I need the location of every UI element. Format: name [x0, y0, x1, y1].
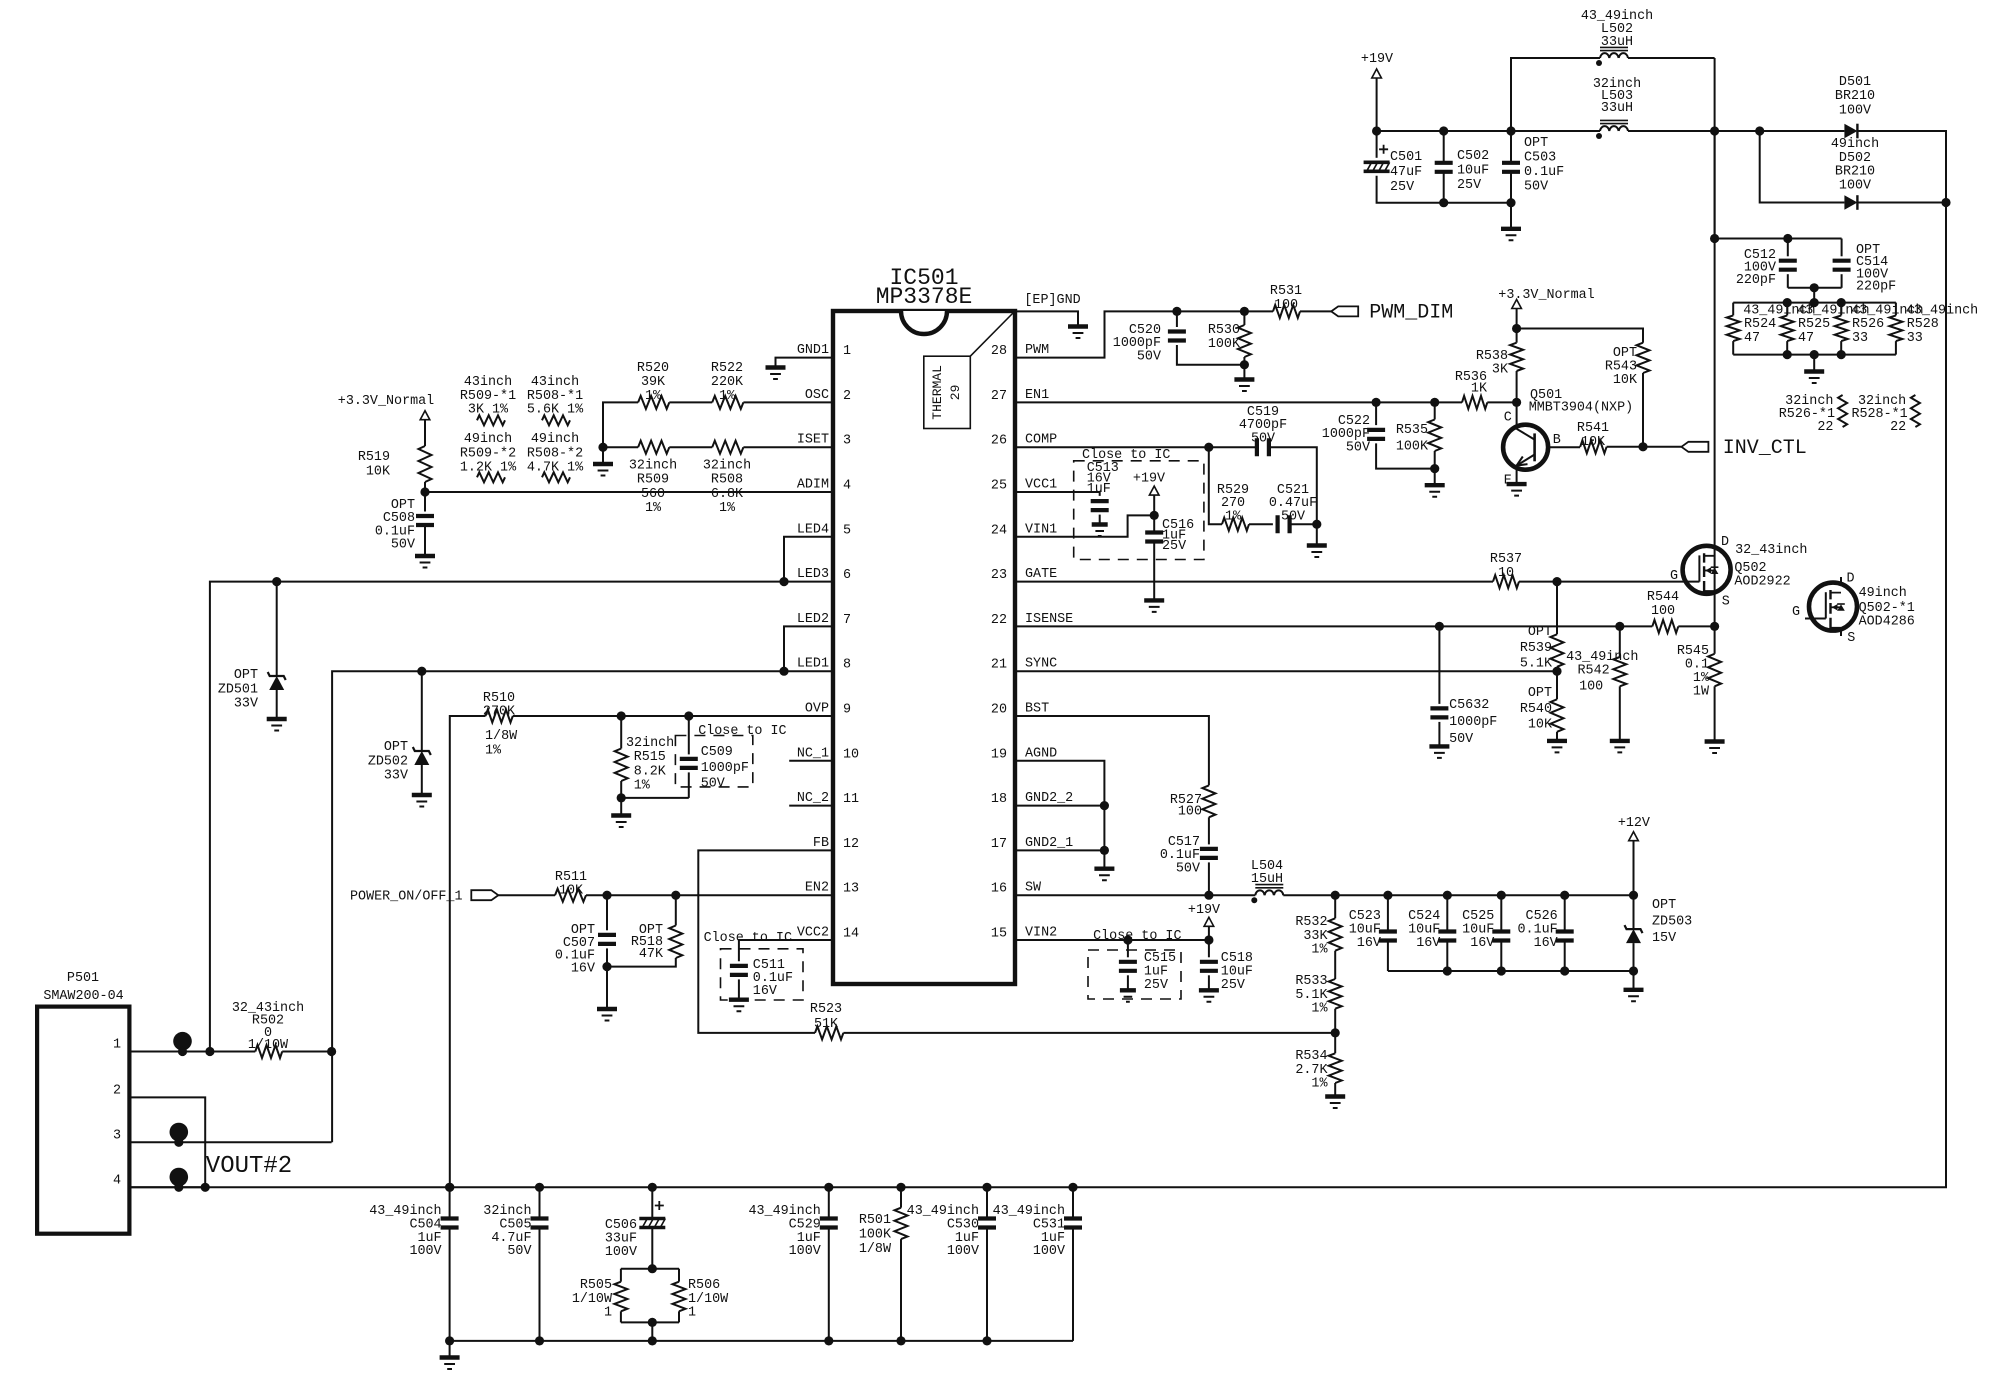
wire network top rail: [1733, 302, 1896, 304]
svg-text:R524: R524: [1744, 317, 1776, 332]
svg-text:VIN1: VIN1: [1025, 522, 1057, 537]
wire R518 bottom: [607, 958, 676, 967]
wire: [1556, 732, 1558, 741]
node ground rail: [982, 1336, 991, 1345]
node ZD503/+12V: [1629, 891, 1638, 900]
wire: [1249, 523, 1273, 525]
svg-text:OPT: OPT: [1652, 898, 1676, 913]
wire R524: [1732, 303, 1734, 316]
node C501 top: [1372, 126, 1381, 135]
wire ZD503: [1633, 895, 1635, 929]
svg-text:10K: 10K: [559, 884, 584, 899]
svg-text:1/10W: 1/10W: [248, 1038, 289, 1053]
node C523 top: [1383, 891, 1392, 900]
svg-text:16V: 16V: [1534, 936, 1558, 951]
wire R544 to Q502 source: [1678, 625, 1714, 627]
wire to INV_CTL: [1607, 446, 1682, 448]
svg-text:26: 26: [991, 434, 1007, 449]
node R515 tap: [617, 711, 626, 720]
node R505/R506 top: [648, 1264, 657, 1273]
resistor R526 33: [1835, 315, 1848, 341]
svg-text:POWER_ON/OFF_1: POWER_ON/OFF_1: [350, 890, 463, 905]
svg-text:24: 24: [991, 523, 1007, 538]
wire: [1334, 1083, 1336, 1097]
wire +19V stem: [1376, 78, 1378, 131]
resistor R535 100K: [1428, 420, 1441, 452]
node D501/D502 cathodes: [1941, 198, 1950, 207]
svg-text:EN1: EN1: [1025, 388, 1049, 403]
wire R526: [1840, 303, 1842, 316]
capacitor C506 33uF electrolytic: [639, 1219, 665, 1228]
svg-text:22: 22: [991, 613, 1007, 628]
wire OVP to bottom rail: [450, 716, 486, 1187]
svg-text:BR210: BR210: [1835, 89, 1875, 104]
resistor R508-*1 zigzag: [542, 415, 570, 425]
node C525 bottom: [1497, 966, 1506, 975]
svg-text:VCC2: VCC2: [797, 926, 829, 941]
svg-text:2: 2: [843, 389, 851, 404]
svg-text:ISET: ISET: [797, 433, 829, 448]
resistor R526-*1 22 option: [1838, 395, 1847, 427]
wire: [669, 401, 712, 403]
svg-text:14: 14: [843, 927, 859, 942]
node VIN1/+19V/C516: [1150, 511, 1159, 520]
wire R535: [1434, 402, 1436, 419]
node LED2-LED1 junction: [779, 667, 788, 676]
wire: [1208, 926, 1210, 940]
ground C513: [1092, 522, 1108, 526]
resistor R509-*1 zigzag: [477, 415, 505, 425]
node R535 tap: [1430, 398, 1439, 407]
svg-text:1/10W: 1/10W: [572, 1292, 613, 1307]
node C503 bottom: [1506, 198, 1515, 207]
svg-text:C501: C501: [1390, 150, 1422, 165]
flag PWM_DIM: [1331, 306, 1358, 316]
node: [1837, 298, 1846, 307]
resistor R540 10K OPT: [1551, 699, 1564, 732]
wire Q502-*1 drain stub: [1840, 577, 1842, 583]
wire to C508: [424, 492, 426, 512]
svg-text:1uF: 1uF: [1087, 482, 1111, 497]
capacitor C502 10uF: [1435, 163, 1453, 172]
node R535 bottom: [1430, 464, 1439, 473]
wire: [421, 765, 423, 795]
svg-text:LED1: LED1: [797, 657, 829, 672]
svg-text:10K: 10K: [1581, 435, 1606, 450]
svg-text:1%: 1%: [645, 389, 662, 404]
flag POWER_ON/OFF_1: [471, 890, 498, 900]
svg-text:P501: P501: [67, 971, 99, 986]
svg-text:GATE: GATE: [1025, 567, 1057, 582]
wire: [738, 979, 740, 999]
svg-text:4.7K 1%: 4.7K 1%: [527, 461, 584, 476]
svg-text:20: 20: [991, 703, 1007, 718]
resistor R541 10K: [1580, 440, 1606, 453]
capacitor C531 1uF: [1064, 1219, 1082, 1228]
power arrow +19V VIN1: [1149, 486, 1159, 495]
svg-text:100V: 100V: [947, 1244, 979, 1259]
svg-text:50V: 50V: [1176, 861, 1200, 876]
wire: [688, 772, 690, 798]
wire: [828, 1228, 830, 1341]
wire R532: [1334, 895, 1336, 918]
inductor L502 33uH: [1600, 47, 1628, 50]
resistor R509-*2 zigzag: [477, 472, 505, 482]
ground [EP]: [1068, 324, 1088, 328]
wire Q502-*1 gate stub: [1805, 618, 1826, 620]
resistor R544 100: [1652, 620, 1678, 633]
resistor R506 1/10W: [673, 1282, 686, 1312]
svg-text:R526: R526: [1852, 317, 1884, 332]
svg-text:NC_2: NC_2: [797, 791, 829, 806]
svg-text:220pF: 220pF: [1736, 273, 1776, 288]
wire: [1243, 357, 1245, 365]
wire VIN1 to +19V node: [1015, 515, 1154, 536]
svg-text:OSC: OSC: [805, 388, 829, 403]
wire to R515: [620, 716, 622, 749]
wire: [1208, 975, 1210, 990]
svg-text:220K: 220K: [711, 375, 744, 390]
svg-text:C: C: [1504, 411, 1512, 426]
resistor R533 5.1K: [1329, 979, 1342, 1009]
svg-text:1%: 1%: [1311, 1077, 1328, 1092]
wire C523: [1387, 895, 1389, 931]
wire P501 pin4: [129, 1186, 205, 1188]
svg-text:R506: R506: [688, 1278, 720, 1293]
wire ISET: [743, 446, 833, 448]
wire R539 top: [1556, 582, 1558, 635]
capacitor C524 10uF: [1438, 932, 1456, 941]
svg-text:VOUT#2: VOUT#2: [206, 1153, 292, 1180]
node R501 top: [896, 1183, 905, 1192]
wire C512/C514 bottom: [1788, 287, 1842, 289]
wire P501 pin3: [129, 1141, 331, 1143]
svg-text:MP3378E: MP3378E: [876, 284, 973, 310]
svg-text:1%: 1%: [1311, 943, 1328, 958]
svg-text:3K: 3K: [1492, 363, 1509, 378]
wire R528: [1895, 303, 1897, 316]
svg-text:100V: 100V: [789, 1244, 821, 1259]
ground R540: [1547, 739, 1567, 743]
dashed box close to IC C515: [1088, 950, 1181, 999]
svg-text:1/8W: 1/8W: [859, 1242, 892, 1257]
wire to ground: [1316, 524, 1318, 545]
capacitor C529 1uF: [820, 1219, 838, 1228]
capacitor C517 0.1uF: [1200, 849, 1218, 858]
svg-text:R544: R544: [1647, 590, 1679, 605]
svg-text:G: G: [1670, 569, 1678, 584]
wire LED2 stub: [784, 626, 833, 671]
wire to Q501 collector node: [1487, 401, 1516, 403]
node R502 right junction: [327, 1047, 336, 1056]
ground ZD502: [412, 793, 432, 797]
node R538/R543 top: [1512, 324, 1521, 333]
svg-text:1%: 1%: [719, 501, 736, 516]
svg-text:INV_CTL: INV_CTL: [1723, 437, 1807, 460]
node: [174, 1183, 183, 1192]
svg-text:10: 10: [843, 747, 859, 762]
svg-text:D: D: [1721, 535, 1729, 550]
svg-text:50V: 50V: [1281, 509, 1305, 524]
svg-text:AGND: AGND: [1025, 746, 1057, 761]
wire: [1153, 542, 1155, 601]
ground C515: [1120, 988, 1136, 992]
svg-text:50V: 50V: [701, 777, 725, 792]
wire pin1 GND1 stub: [776, 358, 834, 368]
svg-text:15uH: 15uH: [1251, 872, 1283, 887]
capacitor C511 0.1uF: [730, 966, 748, 975]
wire to R518: [675, 895, 677, 925]
svg-text:OVP: OVP: [805, 702, 829, 717]
svg-text:THERMAL: THERMAL: [930, 365, 945, 420]
wire C529: [828, 1187, 830, 1218]
node C512 top rail: [1710, 234, 1719, 243]
svg-text:6: 6: [843, 568, 851, 583]
node ZD502 tap: [417, 667, 426, 676]
ground C511: [729, 998, 749, 1002]
wire: [1841, 274, 1843, 288]
node R518 tap: [671, 891, 680, 900]
wire: [424, 420, 426, 446]
node C518/+19V: [1204, 935, 1213, 944]
svg-text:1K: 1K: [1471, 382, 1488, 397]
thermal pad box pin 29: [924, 356, 971, 428]
power arrow +12V: [1629, 832, 1639, 841]
resistor R525 47: [1781, 315, 1794, 341]
wire: [1334, 1009, 1336, 1054]
capacitor C514 220pF OPT: [1833, 261, 1851, 270]
svg-text:ZD501: ZD501: [218, 682, 258, 697]
node C530 top: [982, 1183, 991, 1192]
capacitor C503 0.1uF: [1502, 163, 1520, 172]
wire NC_2 stub: [789, 805, 833, 807]
wire: [1840, 341, 1842, 355]
svg-text:LED3: LED3: [797, 567, 829, 582]
node R542 tap: [1615, 622, 1624, 631]
svg-text:OPT: OPT: [1528, 686, 1552, 701]
wire: [1127, 975, 1129, 990]
diode D501 BR210: [1844, 124, 1857, 139]
node Q502 source junction: [1710, 622, 1719, 631]
zener diode ZD503 15V: [1625, 925, 1643, 933]
capacitor C522 1000pF: [1367, 430, 1385, 439]
node C507/R518 bottom: [602, 962, 611, 971]
svg-text:16V: 16V: [1416, 936, 1440, 951]
resistor R528-*1 22 option: [1911, 395, 1920, 427]
wire: [669, 446, 712, 448]
svg-text:1000pF: 1000pF: [1449, 715, 1497, 730]
svg-text:R533: R533: [1295, 974, 1327, 989]
svg-text:+19V: +19V: [1361, 52, 1393, 67]
ground AGND: [1094, 867, 1114, 871]
svg-text:47: 47: [1744, 331, 1760, 346]
node C515 tap: [1123, 935, 1132, 944]
node R539 top: [1552, 577, 1561, 586]
svg-text:R535: R535: [1396, 423, 1428, 438]
power arrow +19V input: [1372, 69, 1382, 78]
svg-text:32_43inch: 32_43inch: [1735, 543, 1807, 558]
wire C520 bottom: [1177, 345, 1245, 365]
power arrow +19V VIN2: [1204, 917, 1214, 926]
capacitor C505 4.7uF: [531, 1219, 549, 1228]
svg-text:Close to IC: Close to IC: [698, 724, 786, 739]
resistor R502 0ohm: [255, 1045, 282, 1058]
svg-text:[EP]GND: [EP]GND: [1024, 293, 1080, 308]
svg-text:17: 17: [991, 837, 1007, 852]
svg-text:8: 8: [843, 658, 851, 673]
svg-text:29: 29: [948, 385, 963, 401]
wire AGND chain: [1015, 761, 1104, 869]
svg-text:S: S: [1847, 631, 1855, 646]
ground GND1: [766, 365, 786, 369]
svg-text:OPT: OPT: [234, 668, 258, 683]
wire to ground: [1510, 203, 1512, 229]
transistor Q502-*1 AOD4286 MOSFET option: [1809, 583, 1857, 631]
wire: [651, 1228, 653, 1269]
wire to PWM_DIM flag: [1300, 310, 1331, 312]
node: [1783, 350, 1792, 359]
wire EP pad to ground: [1015, 311, 1078, 326]
svg-text:33uH: 33uH: [1601, 35, 1633, 50]
svg-text:R534: R534: [1295, 1049, 1327, 1064]
svg-text:PWM: PWM: [1025, 343, 1049, 358]
svg-text:32inch: 32inch: [703, 459, 751, 474]
capacitor C520 1000pF: [1168, 332, 1186, 341]
svg-text:C502: C502: [1457, 149, 1489, 164]
svg-text:100V: 100V: [1839, 178, 1871, 193]
resistor R531 100: [1273, 305, 1300, 318]
svg-text:R501: R501: [859, 1213, 891, 1228]
wire: [1516, 309, 1518, 343]
svg-text:22: 22: [1890, 420, 1906, 435]
svg-text:50V: 50V: [1251, 431, 1275, 446]
svg-text:+19V: +19V: [1188, 903, 1220, 918]
wire: [1153, 495, 1155, 515]
wire: [424, 525, 426, 556]
svg-text:5.6K 1%: 5.6K 1%: [527, 403, 584, 418]
wire: [606, 948, 608, 966]
svg-text:S: S: [1722, 594, 1730, 609]
node LED4-LED3 junction: [779, 577, 788, 586]
wire L502 branch right: [1628, 57, 1715, 59]
svg-text:16V: 16V: [1470, 936, 1494, 951]
svg-text:+3.3V_Normal: +3.3V_Normal: [338, 394, 434, 409]
svg-text:4: 4: [843, 479, 851, 494]
capacitor C521 0.47uF: [1278, 515, 1290, 533]
svg-text:28: 28: [991, 344, 1007, 359]
node C503/L502 top: [1506, 126, 1515, 135]
wire C501: [1376, 131, 1378, 158]
svg-text:1/8W: 1/8W: [485, 729, 518, 744]
ground C516: [1144, 598, 1164, 602]
svg-text:+3.3V_Normal: +3.3V_Normal: [1498, 288, 1594, 303]
svg-text:R542: R542: [1578, 664, 1610, 679]
svg-text:100K: 100K: [1208, 337, 1241, 352]
wire D502 branch: [1760, 131, 1845, 203]
wire vertical to C512 (part): [1714, 131, 1716, 239]
wire: [424, 482, 426, 492]
wire: [1290, 523, 1317, 525]
svg-text:PWM_DIM: PWM_DIM: [1369, 302, 1453, 325]
wire to ground: [1633, 971, 1635, 990]
svg-text:32inch: 32inch: [626, 736, 674, 751]
svg-text:50V: 50V: [1137, 349, 1161, 364]
svg-text:19: 19: [991, 747, 1007, 762]
test pad pin3: [170, 1123, 189, 1142]
wire C519 right: [1269, 447, 1317, 524]
svg-text:33K: 33K: [1303, 929, 1328, 944]
wire ISENSE: [1015, 625, 1652, 627]
svg-text:R508-*1: R508-*1: [527, 389, 583, 404]
svg-text:G: G: [1792, 605, 1800, 620]
wire COMP: [1015, 446, 1257, 448]
node: [178, 1047, 187, 1056]
wire: [651, 1322, 653, 1341]
svg-text:25V: 25V: [1144, 978, 1168, 993]
ground R534: [1325, 1094, 1345, 1098]
wire to R543: [1517, 329, 1643, 343]
svg-text:C5632: C5632: [1449, 698, 1489, 713]
svg-text:Close to IC: Close to IC: [1093, 929, 1181, 944]
wire L502 branch left: [1511, 58, 1600, 131]
wire: [1387, 941, 1389, 972]
flag INV_CTL: [1681, 442, 1708, 452]
wire C518: [1208, 940, 1210, 957]
wire C505: [539, 1187, 541, 1218]
svg-text:ADIM: ADIM: [797, 478, 829, 493]
svg-text:2.7K: 2.7K: [1295, 1063, 1328, 1078]
wire VCC1 to C513: [1015, 492, 1100, 496]
wire: [620, 781, 622, 798]
capacitor C512 220pF: [1779, 261, 1797, 270]
svg-text:100K: 100K: [1396, 440, 1429, 455]
wire: [1714, 686, 1716, 741]
resistor R539 5.1K OPT: [1551, 634, 1564, 667]
node C502 top: [1439, 126, 1448, 135]
svg-text:10K: 10K: [1613, 373, 1638, 388]
node Q501 collector: [1512, 398, 1521, 407]
svg-text:25: 25: [991, 479, 1007, 494]
node ground rail: [535, 1336, 544, 1345]
wire R530: [1243, 311, 1245, 325]
svg-text:1/10W: 1/10W: [688, 1292, 729, 1307]
node pin2 to rail: [201, 1183, 210, 1192]
wire: [282, 1051, 331, 1053]
resistor R536 1K: [1462, 396, 1487, 409]
wire +19V rail left: [1377, 130, 1600, 132]
svg-text:8.2K: 8.2K: [634, 764, 667, 779]
svg-text:R508-*2: R508-*2: [527, 446, 583, 461]
wire C502: [1443, 131, 1445, 163]
transistor Q501 MMBT3904: [1503, 425, 1548, 470]
svg-text:1: 1: [113, 1038, 121, 1053]
resistor R532 33K: [1329, 918, 1342, 950]
svg-text:NC_1: NC_1: [797, 746, 829, 761]
resistor R542 100 43_49inch: [1613, 657, 1626, 686]
resistor R545 0.1 1W: [1708, 654, 1721, 687]
wire: [1500, 941, 1502, 972]
svg-text:39K: 39K: [641, 375, 666, 390]
svg-text:D501: D501: [1839, 75, 1871, 90]
node: [1783, 298, 1792, 307]
dashed box close to IC C509: [675, 736, 752, 787]
wire +12V rail: [1283, 894, 1633, 896]
svg-text:+19V: +19V: [1133, 472, 1165, 487]
svg-text:OPT: OPT: [1524, 136, 1548, 151]
resistor R519 10K: [419, 446, 432, 482]
node L502 right junction: [1710, 126, 1719, 135]
svg-text:100: 100: [1651, 604, 1675, 619]
